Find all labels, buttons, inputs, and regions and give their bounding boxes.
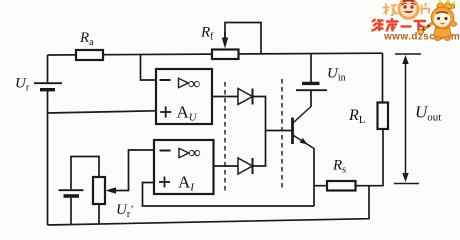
wire collector to U_in battery: [310, 90, 312, 107]
wire A_U minus input to top rail: [141, 54, 157, 80]
wire diode D1 to junction: [253, 97, 266, 131]
svg-text:Uin: Uin: [327, 66, 346, 84]
U_out indicator arrow: [394, 54, 421, 184]
wire A_I output to diode D2: [214, 165, 239, 167]
wire emitter down: [313, 148, 315, 206]
diode D2: [238, 158, 253, 174]
svg-text:Rf: Rf: [200, 25, 214, 43]
op-amp I box A_I: [154, 140, 214, 194]
wire junction to transistor base: [266, 130, 292, 132]
svg-text:∞: ∞: [188, 74, 200, 93]
transistor Q1: [293, 107, 315, 149]
resistor R_s: [327, 181, 356, 191]
wire U_in to top rail: [310, 54, 312, 82]
wire left vertical upper: [47, 55, 49, 83]
wire R_s right to R_L branch: [356, 129, 384, 186]
wire R_f wiper link: [225, 23, 261, 54]
dashed boundary left: [224, 82, 226, 192]
wire left vertical lower: [47, 91, 49, 225]
op-amp A_U gain triangle: [179, 78, 189, 87]
wire battery2 top link to pot: [71, 157, 99, 190]
op-amp A_I plus sign: [159, 177, 170, 188]
arrow on R_f wiper: [222, 32, 228, 49]
op-amp A_I gain triangle: [179, 148, 189, 157]
wire A_U output to diode D1: [212, 96, 238, 98]
svg-text:RL: RL: [348, 107, 366, 126]
dashed boundary right: [281, 79, 283, 188]
op-amp A_U minus sign: [160, 79, 171, 81]
potentiometer U_r' body: [93, 177, 105, 204]
watermark mascot: [418, 0, 456, 40]
resistor R_f: [212, 50, 239, 60]
watermark char pian: [422, 3, 430, 15]
wire battery2 bottom: [70, 198, 72, 225]
diode D1: [238, 89, 253, 105]
op-amp U box A_U: [156, 69, 212, 124]
wire feedback to A_I plus input: [143, 183, 315, 207]
watermark char zhao: [383, 4, 398, 16]
battery U_r: [34, 83, 62, 90]
resistor R_a: [76, 50, 103, 60]
svg-text:Rs: Rs: [332, 158, 346, 176]
wire diode D2 to junction: [253, 131, 266, 167]
wire A_I minus input to pot wiper: [111, 150, 154, 191]
wire right branch top: [382, 53, 384, 102]
watermark text weikuyixia: [372, 18, 427, 32]
op-amp A_I minus sign: [160, 150, 171, 152]
svg-text:Ra: Ra: [79, 30, 94, 48]
svg-text:Ur′: Ur′: [116, 202, 133, 220]
battery 2: [59, 190, 84, 196]
op-amp A_U plus sign: [160, 107, 171, 118]
svg-text:Uout: Uout: [415, 103, 441, 124]
svg-text:∞: ∞: [189, 143, 201, 162]
svg-text:Ur: Ur: [15, 76, 30, 94]
resistor R_L: [378, 103, 389, 130]
wire top rail: [48, 53, 383, 55]
wire bottom rail: [48, 186, 370, 225]
wire to A_U plus input: [48, 111, 157, 113]
watermark stamp circle: [399, 0, 418, 18]
arrow on pot wiper: [106, 187, 117, 193]
battery U_in: [296, 83, 327, 90]
wire emitter node to R_s: [314, 185, 327, 187]
wire pot bottom: [98, 204, 100, 224]
